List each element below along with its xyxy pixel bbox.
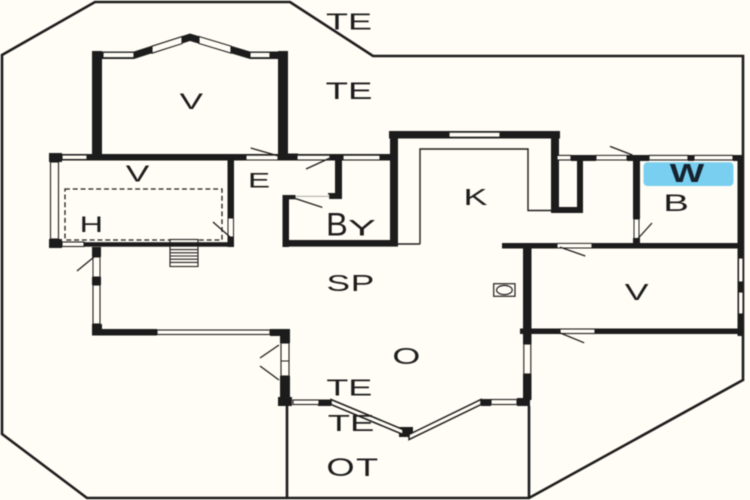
svg-text:H: H — [80, 212, 103, 237]
window: east wall window lower — [739, 292, 744, 314]
svg-text:E: E — [248, 168, 270, 192]
wall: north band right corner — [733, 155, 744, 161]
wall: bathroom left wall — [633, 157, 640, 219]
window: V room top slant right — [199, 37, 231, 54]
OT left wall — [286, 406, 289, 498]
wall: TE bay west wall upper — [280, 334, 290, 343]
wall: north band mullion in bathroom window — [688, 155, 694, 161]
wall: By bottom wall — [283, 240, 398, 247]
window: O east wall window — [524, 344, 531, 374]
door opening: H east wall door — [228, 218, 234, 237]
svg-text:OT: OT — [326, 453, 379, 481]
swing: TE bay French door lower — [260, 366, 279, 380]
wall: By left wall top cap — [283, 195, 296, 199]
mullion line in TE bay French door — [281, 360, 289, 362]
door opening: V room door from E hall — [246, 155, 278, 160]
wall: V room right wall foot — [288, 154, 298, 161]
window: TE bay west French door — [281, 343, 289, 376]
wall: TE bay window end cap — [318, 400, 331, 407]
svg-text:TE: TE — [326, 10, 372, 35]
door opening: SP west door — [93, 257, 100, 277]
wall: bathroom left wall stub bottom — [633, 238, 640, 246]
wall: south wall of bathroom / top wall of right V room — [502, 243, 557, 249]
angled window: right slope — [409, 400, 481, 440]
svg-text:SP: SP — [327, 271, 376, 297]
svg-text:K: K — [464, 185, 488, 210]
wall: north band (H top wall + E north wall) y154-160 — [49, 154, 390, 161]
window: V room top wall flat left — [103, 52, 134, 57]
svg-text:V: V — [625, 280, 649, 305]
wall: right V room bottom wall — [520, 329, 560, 335]
wall: K top wall — [389, 131, 560, 139]
swing: SP-V door — [560, 247, 585, 256]
wall: SP/V divider wall vertical — [523, 243, 532, 334]
wall: SP south wall — [92, 329, 157, 336]
wall: O east wall lower — [523, 334, 532, 344]
svg-text:V: V — [180, 89, 204, 114]
svg-text:B: B — [326, 207, 348, 243]
window: north band window x297-330 (E entry door glazing) — [297, 155, 330, 160]
wall: SP south wall corner east — [270, 329, 290, 336]
window: bathroom top window west — [649, 155, 688, 160]
swing: terrace door north — [610, 146, 632, 155]
window: V room top slant left — [152, 37, 182, 54]
swing: H east door — [213, 222, 230, 237]
window: TE bay small window segment — [293, 400, 319, 405]
wall: E/By east wall — [335, 160, 342, 199]
wall: closet right wall — [577, 155, 583, 213]
angled window: left slope — [331, 400, 403, 435]
window: east wall window upper — [739, 258, 744, 282]
wall: H east wall — [228, 154, 235, 247]
wall: TE bay west bottom corner — [278, 397, 292, 406]
window: closet opening on north band — [557, 155, 571, 160]
wall: K right wall — [551, 131, 559, 213]
door opening: SP to V room door — [557, 243, 592, 248]
svg-text:B: B — [663, 189, 689, 216]
window: bathroom top window east — [694, 155, 733, 160]
svg-text:TE: TE — [328, 410, 375, 436]
OT right wall — [528, 406, 531, 498]
wall: V room (top-left) right wall — [278, 51, 288, 160]
wall: TE bay east segment — [481, 399, 491, 406]
wall: H west corner bottom — [49, 239, 62, 248]
swing: V room door — [251, 148, 279, 156]
swing: E entry glazed door — [306, 158, 330, 169]
svg-text:TE: TE — [326, 78, 373, 105]
wall: SP west wall mid — [92, 277, 101, 285]
wall: V room (top-left) left wall — [92, 51, 102, 160]
swing: SP west door — [77, 257, 94, 271]
wall: V room peaked top wall — [92, 34, 288, 60]
wall: H bottom wall — [49, 242, 234, 247]
wall: SP west wall bottom corner — [92, 324, 102, 335]
window: H bottom wall — [62, 242, 84, 247]
wall: closet bottom wall — [551, 207, 583, 213]
window: H west wall — [51, 162, 59, 239]
window: K top wall window — [449, 132, 500, 137]
wall: TE bay west wall lower — [280, 376, 290, 399]
wall: K left wall — [390, 131, 398, 247]
swing: By door — [295, 198, 323, 207]
swing: TE bay French door upper — [260, 345, 279, 358]
svg-text:V: V — [126, 161, 150, 186]
svg-text:TE: TE — [326, 376, 372, 401]
window: H top wall — [62, 155, 87, 160]
door opening: bathroom door — [634, 219, 639, 239]
svg-text:O: O — [392, 344, 420, 369]
wall: SP west wall stub — [92, 247, 101, 257]
wall: TE bay east corner at O wall — [517, 398, 530, 406]
window: V room top flat right — [250, 52, 270, 57]
window: right V room bottom window — [560, 329, 595, 334]
door opening: By top door (faint threshold) — [296, 195, 329, 200]
svg-text:W: W — [670, 159, 705, 187]
window: SP south wall window — [157, 330, 270, 335]
wall: H west corner top — [49, 153, 62, 162]
wall: By left wall — [283, 195, 290, 247]
window: TE bay east window segment — [491, 400, 517, 405]
swing: bathroom door — [638, 223, 652, 239]
door opening: terrace door north — [596, 155, 627, 160]
wall: O east wall bottom corner — [517, 398, 530, 406]
swing: V room terrace door bottom — [560, 333, 584, 343]
svg-text:Y: Y — [348, 216, 376, 240]
wall: north band segment left of terrace door — [627, 155, 649, 161]
wall: E/By east wall foot — [328, 193, 342, 199]
window: SP west wall window — [93, 285, 100, 324]
wall: angled bay vertex cap — [399, 427, 413, 437]
wall: north band right (closet to bathroom) — [571, 155, 596, 161]
wall: east wall of bathroom and right V room (on boundary) — [738, 155, 745, 336]
window: north band window x343-380 — [343, 155, 380, 160]
